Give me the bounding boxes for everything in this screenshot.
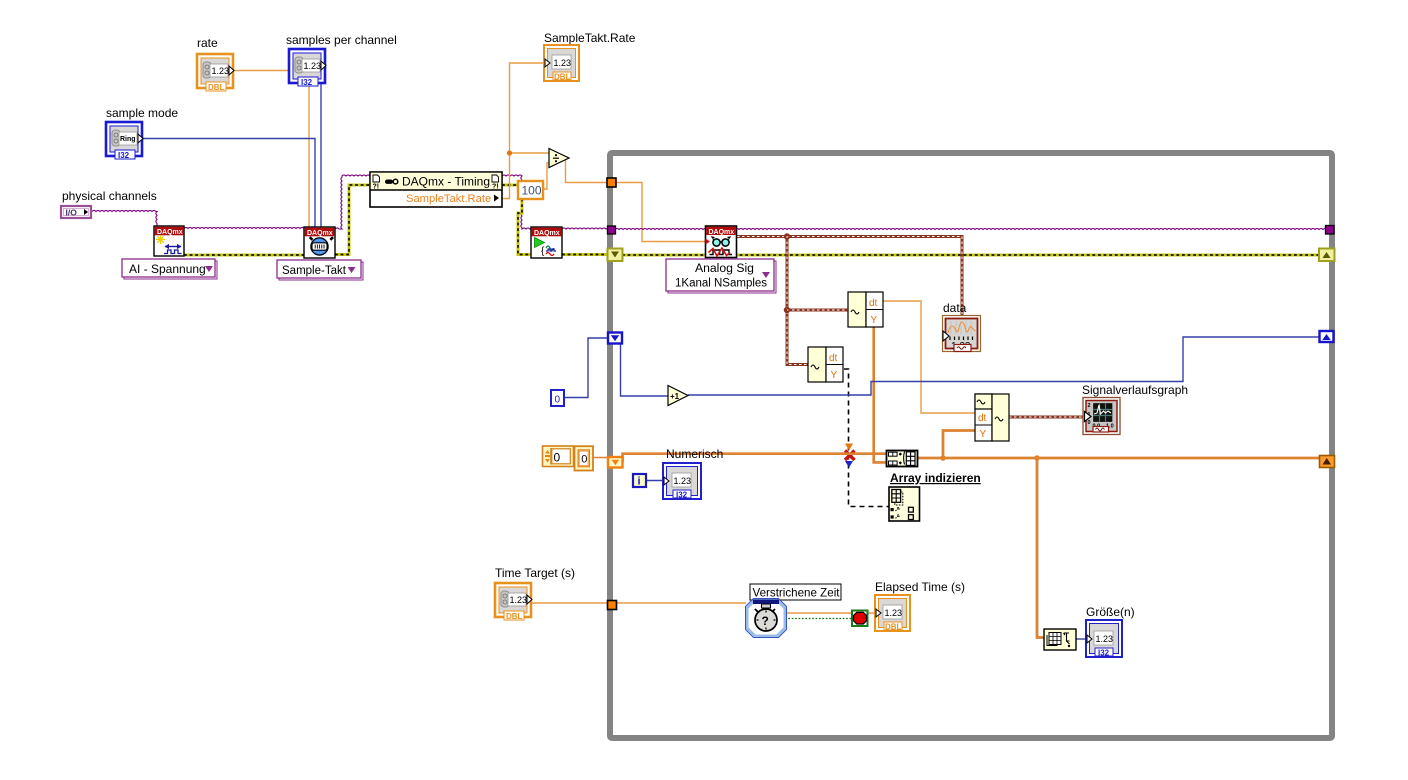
node DAQmx start [531,227,562,258]
svg-text:I32: I32 [1098,649,1110,658]
svg-text:DAQmx: DAQmx [157,229,183,236]
wire array size to indicator [1076,638,1087,640]
svg-text:DBL: DBL [208,83,225,92]
svg-text:0: 0 [581,454,587,466]
wire sample mode blue [143,139,315,228]
wire blue 0 to shift register [563,338,610,398]
svg-text:0: 0 [554,451,561,465]
svg-text:DAQmx: DAQmx [307,230,333,237]
constant 0 orange spinner [543,446,574,467]
indicator data [943,301,981,352]
svg-text:samples per channel: samples per channel [286,33,397,47]
increment node [668,386,688,406]
terminal i [633,474,646,488]
node array size [1044,629,1076,650]
svg-text:Numerisch: Numerisch [666,447,723,461]
wire boolean green dotted [785,618,852,620]
tunnel purple left [608,226,616,234]
svg-text:100: 100 [522,184,542,198]
tunnel orange bottom left [608,601,617,610]
svg-text:i: i [638,476,641,488]
svg-text:Y: Y [871,315,878,326]
svg-text:sample mode: sample mode [106,106,178,120]
control sample mode [106,106,178,160]
wire waveform brown read to data [737,237,962,317]
label Numerisch [666,447,723,461]
wire elapsed orange [785,612,877,614]
while loop frame [610,153,1332,738]
constant 0 blue [551,390,564,406]
svg-text:Elapsed Time (s): Elapsed Time (s) [875,580,965,594]
wire task purple create to timing [184,227,304,228]
svg-text:+1: +1 [670,392,680,401]
svg-text:1.23: 1.23 [304,61,322,71]
node DAQmx timing [304,227,335,258]
express VI DAQmx - Timing [370,172,502,207]
label Array indizieren [890,471,981,485]
shift register blue left [608,333,622,344]
wire error timing to express [335,185,370,255]
svg-text:SampleTakt.Rate: SampleTakt.Rate [544,31,636,45]
wire physical channels purple [92,210,157,227]
shift register error right [1319,249,1335,262]
svg-text:?: ? [762,614,769,628]
node DAQmx create channel [154,226,184,256]
wire orange samplerate to indicator and divide [502,63,549,199]
wire numerisch i blue [646,480,665,482]
wire array main orange thick [623,431,1320,638]
shift register error left [608,249,623,262]
indicator Elapsed Time [875,580,965,632]
wire task purple timing to express [335,175,370,229]
svg-text:1.23: 1.23 [1096,634,1114,644]
svg-text:physical channels: physical channels [62,189,157,203]
svg-text:rate: rate [197,36,218,50]
express VI Verstrichene Zeit [746,584,842,638]
svg-text:2: 2 [1088,403,1091,409]
svg-text:dt: dt [978,413,987,424]
control samples per channel [286,33,397,87]
node get waveform components upper [848,292,883,327]
control Time Target [495,566,575,621]
wire 100 to divide [543,163,549,189]
svg-text:Array indizieren: Array indizieren [890,471,981,485]
svg-text:Analog Sig: Analog Sig [695,261,754,275]
loop condition stop terminal [852,611,868,627]
svg-text:SampleTakt.Rate: SampleTakt.Rate [406,193,491,205]
svg-text:Y: Y [980,429,987,440]
wire time target orange [532,602,746,604]
svg-text:1.23: 1.23 [674,476,692,486]
wire dt orange to build waveform [883,301,975,413]
control physical channels [61,189,157,218]
svg-text:0: 0 [555,395,561,406]
node DAQmx read [706,226,737,258]
indicator Signalverlaufsgraph [1082,383,1188,435]
wire waveform build to graph [1009,416,1083,419]
svg-text:dt: dt [869,298,878,309]
svg-text:Y: Y [831,370,838,381]
wire error inside loop [622,254,1320,257]
svg-text:Signalverlaufsgraph: Signalverlaufsgraph [1082,383,1188,397]
svg-text:1.23: 1.23 [212,66,230,76]
indicator Groesse(n) [1086,605,1135,658]
dropdown AI - Spannung [122,259,217,279]
divide node [549,149,569,168]
shift register orange right [1320,456,1335,468]
constant 0 orange [575,446,594,470]
node index array [889,487,920,521]
wire error create to timing [184,254,304,257]
tunnel purple right [1326,226,1335,235]
wire error express to start node [502,185,531,255]
wire waveform brown branch down [787,237,808,365]
svg-text:0: 0 [1088,420,1091,426]
wire broken dashed [844,369,889,507]
svg-text:Ring: Ring [120,136,136,143]
tunnel orange top left [607,178,616,187]
wire Y array upper dtY to build array [874,325,886,462]
svg-text:DAQmx - Timing: DAQmx - Timing [402,175,490,189]
indicator SampleTakt.Rate [544,31,636,82]
svg-text:Sample-Takt: Sample-Takt [282,265,347,277]
svg-text:DBL: DBL [554,73,571,82]
node get waveform components lower [808,347,843,382]
wire rate orange [234,71,309,228]
svg-text:?!: ?! [492,184,499,191]
svg-text:I32: I32 [301,78,313,87]
svg-text:I32: I32 [676,491,688,500]
svg-text:1.23: 1.23 [554,58,572,68]
dropdown Analog Sig 1Kanal NSamples [666,259,776,293]
svg-text:I/O: I/O [66,208,78,218]
wire task purple express to loop tunnel [502,175,611,229]
svg-text:1.23: 1.23 [885,608,903,618]
wire divide to loop tunnel [566,158,612,183]
wire error start to shift register [562,253,610,256]
svg-text:1.23: 1.23 [510,595,528,605]
constant 100 [518,181,543,199]
svg-text:?!: ?! [373,184,380,191]
svg-text:DAQmx: DAQmx [709,229,735,236]
svg-text:Verstrichene Zeit: Verstrichene Zeit [753,587,841,600]
node build array [887,451,918,467]
svg-text:data: data [943,301,967,315]
control rate [197,36,234,92]
svg-text:Time Target (s): Time Target (s) [495,566,575,580]
svg-text:DBL: DBL [506,612,523,621]
indicator Numerisch [663,463,701,500]
wire waveform brown branch to dtY upper [785,234,848,312]
shift register orange left [608,457,623,468]
wire orange tunnel to read node [616,183,706,242]
wire orange 0 to shift register [593,457,610,459]
node build waveform [975,394,1009,441]
wire task purple inside loop [615,228,1327,229]
svg-text:AI - Spannung: AI - Spannung [129,262,206,276]
svg-text:dt: dt [829,353,838,364]
svg-text:1Kanal NSamples: 1Kanal NSamples [675,278,767,290]
svg-text:DAQmx: DAQmx [534,230,560,237]
svg-text:DBL: DBL [885,623,902,632]
svg-text:I32: I32 [118,151,130,160]
wire samples per channel blue [320,75,322,227]
shift register blue right [1320,331,1334,342]
svg-text:Größe(n): Größe(n) [1086,605,1135,619]
dropdown Sample-Takt [277,260,363,280]
wire blue increment chain [621,337,1321,396]
